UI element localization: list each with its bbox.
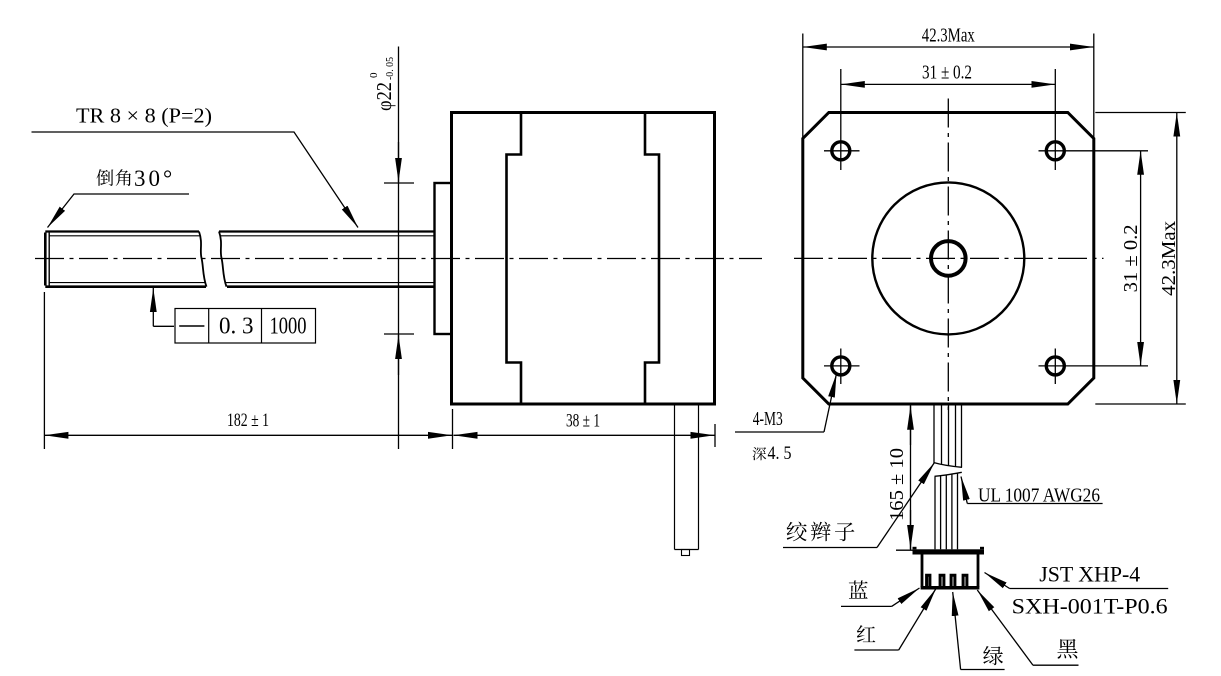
svg-text:31 ± 0.2: 31 ± 0.2 [922,62,972,84]
hole crosshairs / extension lines [824,150,860,152]
thread root line bottom-left [49,282,204,284]
svg-text:JST XHP-4: JST XHP-4 [1039,562,1140,587]
pilot circle [872,182,1024,334]
JST XHP-4 connector [913,549,985,554]
wire break curve bottom [935,472,962,476]
shaft top major line right segment [219,230,435,232]
dim 31±0.2 right [1140,151,1142,366]
wire colour labels [849,581,868,599]
leader TR [32,132,359,228]
svg-text:4-M3: 4-M3 [753,408,783,430]
svg-text:TR 8 × 8 (P=2): TR 8 × 8 (P=2) [76,104,212,128]
svg-text:-0. 05: -0. 05 [384,57,396,80]
motor face octagon outline [803,113,1094,405]
thread root line top-left [49,235,199,237]
connector pin slot [940,575,944,588]
ext line right 38 [714,424,716,447]
svg-text:SXH-001T-P0.6: SXH-001T-P0.6 [1012,594,1168,619]
label chamfer 30deg [96,169,113,186]
shaft bottom major line right segment [227,285,435,288]
phi22 dimension line [398,47,400,450]
phi22 ext bottom [384,333,414,335]
front boss/hub phi22 [435,183,452,334]
lead-wire exit, side view [674,404,676,550]
dim line 182 [44,434,452,436]
motor body outline [452,113,715,405]
center bore [931,241,966,276]
centerline vertical [947,99,949,411]
dim 42.3Max right [1095,112,1186,114]
svg-text:31 ± 0.2: 31 ± 0.2 [1120,224,1142,292]
leader chamfer [48,194,190,228]
centerline horizontal [794,257,1104,259]
lead wires [933,405,935,464]
dim 165±10 [910,406,912,445]
dim 31±0.2 top [841,83,1056,85]
shaft TR8x8 lead screw [44,233,47,286]
svg-text:1000: 1000 [270,314,307,340]
straightness tolerance frame 0.3/1000 [175,309,316,344]
svg-text:0: 0 [368,72,380,78]
front end-cap parting line [507,113,522,405]
mounting holes 4-M3 [832,142,850,160]
connector pin slot [963,575,967,588]
phi22 upper arrow [398,142,400,182]
wire break curve top [934,463,963,468]
svg-text:165 ± 10: 165 ± 10 [886,448,908,521]
label twisted braid [787,522,807,542]
phi22 ext top [384,182,414,184]
phi22 lower arrow [398,335,400,375]
shaft break curve 2 [219,232,227,287]
thread root line bottom-right [226,282,435,284]
ext line left 182 [43,292,45,449]
thread root line top-right [220,235,435,237]
svg-text:182 ± 1: 182 ± 1 [227,410,269,431]
shaft break curve 1 [199,232,207,287]
shaft bottom major line left segment [45,285,206,288]
straightness symbol [179,325,204,327]
svg-text:30°: 30° [134,166,175,191]
svg-text:42.3Max: 42.3Max [1158,221,1180,296]
svg-text:φ22: φ22 [372,82,396,111]
svg-text:38 ± 1: 38 ± 1 [566,411,600,432]
leader 4-M3 [824,374,837,433]
svg-text:4. 5: 4. 5 [768,443,792,464]
ext line motor face [452,409,454,449]
svg-text:42.3Max: 42.3Max [922,25,975,47]
tolerance leader arrow [152,288,154,326]
dim line 38 [454,434,715,436]
rear end-cap parting line [645,113,659,405]
centerline side view [35,258,762,260]
shaft top major line left segment [45,230,199,232]
dim 42.3Max top [802,34,804,140]
connector pin slot [951,575,955,588]
svg-text:0. 3: 0. 3 [219,314,254,340]
connector pin slot [927,575,930,588]
